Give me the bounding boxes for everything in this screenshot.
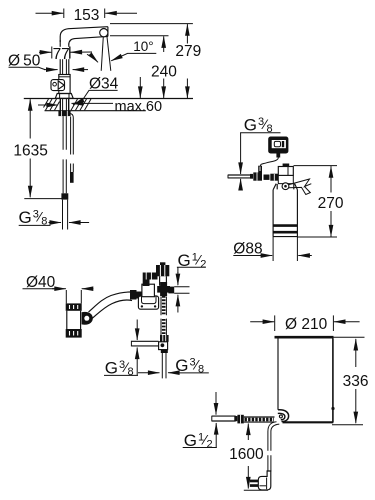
left G3/8 down arrow — [136, 320, 138, 341]
svg-text:Ø34: Ø34 — [89, 75, 119, 92]
faucet body — [59, 75, 70, 94]
dimension 279 — [110, 24, 201, 98]
riser elbow black — [143, 273, 158, 287]
faucet down tube — [60, 40, 69, 75]
supply hose A — [63, 116, 66, 193]
cartridge label band — [273, 226, 297, 233]
svg-text:Ø 50: Ø 50 — [8, 52, 41, 69]
dimension 336 — [332, 337, 369, 425]
label G3/8 faucet — [19, 208, 90, 228]
hose end fitting — [130, 290, 142, 300]
hose A threaded end — [63, 200, 68, 230]
svg-text:max.60: max.60 — [115, 99, 163, 115]
filter display unit — [268, 137, 288, 154]
riser pipe — [160, 276, 167, 285]
filter inlet pipe — [228, 175, 251, 179]
label G3/8 right — [168, 356, 209, 376]
lever handle — [51, 80, 65, 91]
svg-text:270: 270 — [318, 195, 344, 212]
dimension diameter 210 — [250, 315, 359, 332]
connector below tee — [161, 350, 168, 353]
mounting shank below deck — [60, 99, 68, 111]
hose end reference line — [24, 198, 62, 200]
counter deck bottom line — [45, 110, 146, 112]
svg-text:1600: 1600 — [229, 446, 264, 463]
label diameter 50 — [8, 52, 88, 69]
label max.60 — [72, 77, 163, 115]
side nut measured — [168, 287, 174, 294]
pipe ring — [250, 174, 253, 179]
dimension diameter 88 — [233, 240, 311, 257]
display stem and cable — [260, 154, 280, 167]
dimension 1600 — [229, 424, 264, 489]
label G3/8 filter — [240, 115, 280, 135]
lower plain hose — [162, 353, 166, 378]
aerator ball — [100, 28, 108, 36]
side nut witness lines — [174, 287, 189, 294]
power plug — [250, 471, 271, 490]
label G1/2 cooler — [183, 392, 217, 450]
deck hatching left — [44, 99, 60, 110]
lever fork — [289, 179, 311, 195]
head connector — [270, 174, 278, 181]
svg-text:Ø 210: Ø 210 — [285, 316, 328, 333]
dimension 153 — [36, 7, 138, 24]
cartridge extension lines — [273, 237, 297, 261]
G3/8 leader arrow to pipe — [240, 133, 242, 189]
svg-text:1635: 1635 — [13, 142, 47, 159]
braided hose vertical — [161, 296, 166, 335]
counter deck top line — [24, 98, 193, 100]
svg-text:153: 153 — [74, 7, 100, 24]
curved connection hose — [87, 292, 132, 323]
faucet spout — [60, 27, 108, 45]
dimension 1635 — [13, 99, 47, 197]
mounting nut (black) — [58, 111, 70, 116]
hose elbow connector at cylinder — [82, 312, 93, 325]
hose A connector G3/8 — [61, 193, 68, 199]
filter cartridge body — [273, 190, 297, 237]
power cord — [268, 422, 279, 472]
solenoid block — [142, 284, 155, 297]
mid ring — [264, 175, 270, 180]
cooler box — [275, 337, 334, 422]
label diameter 40 — [23, 274, 94, 291]
dimension 77 — [39, 46, 92, 63]
svg-text:336: 336 — [343, 373, 369, 390]
riser top nut G1/2 — [156, 262, 169, 276]
filter cartridge shoulder — [273, 184, 297, 190]
deck level arrow left — [38, 104, 58, 106]
head lower body — [278, 175, 293, 183]
escutcheon base — [55, 94, 73, 99]
mounting plate with screws — [138, 296, 158, 309]
deck hatching right — [71, 99, 91, 110]
water stream lines (10 degrees) — [101, 37, 111, 71]
box detail dot — [331, 407, 334, 410]
aerator cylinder — [66, 303, 82, 337]
label G3/8 left — [104, 348, 160, 378]
label G1/2 top — [177, 251, 206, 313]
tee fitting — [157, 282, 170, 296]
svg-text:240: 240 — [151, 63, 177, 80]
braided hose nut — [160, 335, 169, 342]
supply tube to box — [212, 415, 275, 424]
ground line under plug — [244, 489, 268, 491]
label 10 degrees — [87, 39, 156, 62]
locking ring circle — [282, 183, 289, 190]
dimension 270 — [294, 166, 344, 237]
label diameter 34 — [73, 75, 119, 105]
svg-text:77: 77 — [53, 46, 70, 63]
svg-text:Ø88: Ø88 — [233, 240, 262, 257]
supply hose B — [70, 114, 74, 183]
aerator cylinder extension lines — [66, 290, 81, 303]
elbow hook at box corner — [278, 410, 289, 422]
pipe nut with stub — [253, 166, 262, 181]
svg-text:279: 279 — [175, 43, 201, 60]
filter head top box — [278, 164, 293, 176]
svg-text:10°: 10° — [133, 39, 153, 54]
tee elbow with side pipe — [131, 341, 167, 350]
dimension 240 — [110, 36, 177, 98]
